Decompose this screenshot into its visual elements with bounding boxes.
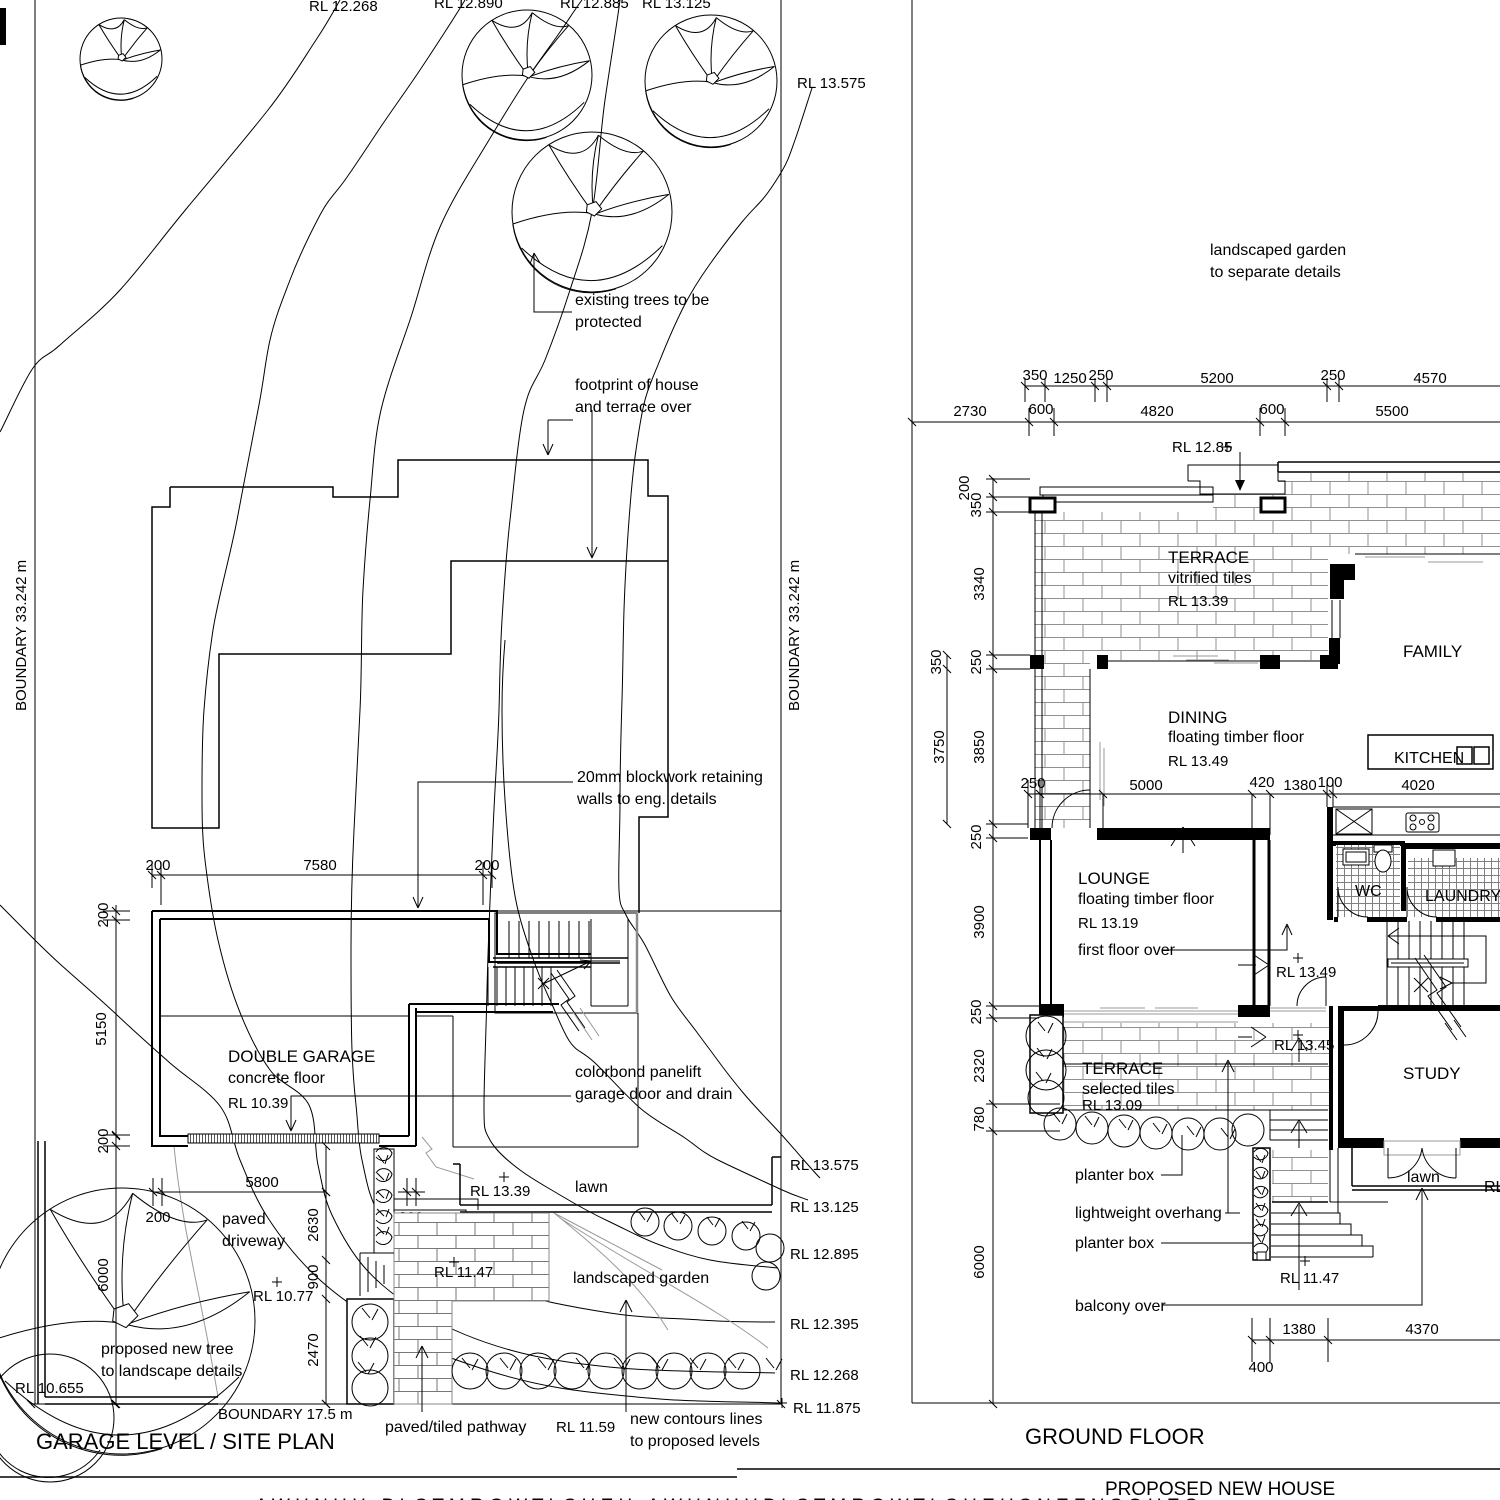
french door [1384, 1141, 1460, 1155]
gray garden fan lines [554, 1213, 768, 1348]
retaining wall bottom-left [38, 1141, 218, 1404]
lounge south window gray [1064, 1008, 1238, 1014]
svg-text:FAMILY: FAMILY [1403, 642, 1462, 661]
svg-text:RL 11.59: RL 11.59 [556, 1419, 615, 1436]
lot boundary vertical [911, 0, 913, 1403]
corner mark top-left [0, 8, 6, 45]
svg-text:proposed new tree: proposed new tree [101, 1341, 234, 1358]
svg-text:RL 12.268: RL 12.268 [790, 1367, 859, 1384]
svg-text:landscaped garden: landscaped garden [1210, 242, 1346, 259]
terrace2 shrub row [1044, 1108, 1264, 1150]
svg-text:GARAGE LEVEL / SITE PLAN: GARAGE LEVEL / SITE PLAN [36, 1429, 335, 1454]
svg-text:A W H N H H , B L S T M: A W H N H H , B L S T M R G W T L S H E … [255, 1496, 1197, 1500]
dim row2 [908, 401, 1500, 436]
svg-text:RL 11.875: RL 11.875 [793, 1400, 861, 1417]
tree T4 [512, 132, 672, 293]
svg-text:RL 13.49: RL 13.49 [1168, 753, 1228, 770]
brick pathway [394, 1213, 549, 1404]
svg-text:250: 250 [1020, 775, 1045, 792]
stair X start [1414, 978, 1428, 992]
svg-text:RL 12.395: RL 12.395 [790, 1316, 859, 1333]
WC room tiles [1336, 845, 1400, 917]
svg-text:250: 250 [968, 649, 985, 674]
svg-text:DOUBLE GARAGE: DOUBLE GARAGE [228, 1047, 375, 1066]
svg-text:200: 200 [95, 1128, 112, 1153]
svg-text:350: 350 [968, 492, 985, 517]
svg-text:350: 350 [1022, 367, 1047, 384]
pathway arrow [416, 1346, 428, 1412]
svg-text:1250: 1250 [1053, 370, 1086, 387]
garage interior split line [160, 1015, 409, 1017]
svg-text:6000: 6000 [95, 1258, 112, 1291]
contour C1 re-entry lower [0, 905, 779, 1403]
svg-text:6000: 6000 [971, 1245, 988, 1278]
stair lower flight treads [488, 967, 551, 1006]
svg-text:780: 780 [971, 1106, 988, 1131]
svg-text:planter box: planter box [1075, 1167, 1154, 1184]
planter strip right [1253, 1148, 1270, 1260]
steps S0 arrow [398, 1214, 424, 1240]
kitchen island [1368, 735, 1493, 769]
svg-text:200: 200 [95, 902, 112, 927]
stair up arrow left [1388, 928, 1399, 944]
svg-text:balcony over: balcony over [1075, 1298, 1166, 1315]
laundry door arc [1407, 887, 1437, 917]
terrace parapet top [1040, 487, 1213, 502]
driveway 6000 dim [95, 1132, 120, 1408]
svg-text:RL 10.77: RL 10.77 [253, 1288, 313, 1305]
threshold gray [1270, 1008, 1326, 1011]
boundary right (33.242 m) [780, 0, 782, 1404]
svg-text:400: 400 [1248, 1359, 1273, 1376]
terrace brick entry strip [1213, 494, 1278, 512]
lawn pocket edges [453, 1157, 781, 1212]
svg-text:STUDY: STUDY [1403, 1064, 1461, 1083]
left dim column main [956, 475, 1060, 1408]
svg-text:RL 11.47: RL 11.47 [434, 1264, 493, 1281]
svg-text:to separate details: to separate details [1210, 264, 1341, 281]
svg-text:BOUNDARY 17.5 m: BOUNDARY 17.5 m [218, 1406, 353, 1423]
svg-text:RL 13.39: RL 13.39 [1168, 593, 1228, 610]
svg-text:5200: 5200 [1200, 370, 1233, 387]
steps to lawn [1271, 1148, 1388, 1257]
contour C2 [202, 0, 775, 1373]
svg-text:7580: 7580 [303, 857, 336, 874]
svg-text:DINING: DINING [1168, 708, 1228, 727]
svg-text:and terrace over: and terrace over [575, 399, 692, 416]
svg-text:landscaped garden: landscaped garden [573, 1270, 709, 1287]
svg-text:walls to eng. details: walls to eng. details [576, 791, 717, 808]
garage walls thick double [152, 911, 591, 1146]
lawn top line to boundary [497, 910, 781, 912]
svg-text:RL 10.39: RL 10.39 [228, 1095, 288, 1112]
svg-text:to proposed levels: to proposed levels [630, 1433, 760, 1450]
family west window [1332, 600, 1340, 638]
svg-text:LOUNGE: LOUNGE [1078, 869, 1150, 888]
svg-text:900: 900 [305, 1264, 322, 1289]
terrace west wall lines [1035, 512, 1042, 828]
svg-text:vitrified tiles: vitrified tiles [1168, 570, 1252, 587]
boundary bottom (17.5 m) [27, 1400, 785, 1408]
svg-text:RL 13.39: RL 13.39 [470, 1183, 530, 1200]
svg-text:KITCHEN: KITCHEN [1394, 750, 1464, 767]
planter box leader2 [1161, 1242, 1253, 1244]
path up arrow [1291, 1203, 1307, 1290]
study west walls [1329, 1006, 1344, 1150]
shrub row bottom [452, 1353, 782, 1389]
svg-text:TERRACE: TERRACE [1082, 1059, 1163, 1078]
svg-text:BOUNDARY 33.242 m: BOUNDARY 33.242 m [786, 560, 803, 711]
svg-text:existing trees to be: existing trees to be [575, 292, 709, 309]
svg-text:250: 250 [968, 824, 985, 849]
svg-text:RL 10.655: RL 10.655 [15, 1380, 84, 1397]
svg-text:planter box: planter box [1075, 1235, 1154, 1252]
svg-text:600: 600 [1028, 401, 1053, 418]
svg-text:RL 12.268: RL 12.268 [309, 0, 378, 15]
dim column 2630/900/2470 [305, 1142, 330, 1408]
hall wall double vertical [1254, 840, 1269, 1006]
family west pier L [1330, 564, 1355, 599]
stair treads upper [1387, 921, 1464, 959]
dim bottom 400/1380/4370 [1248, 1318, 1500, 1376]
lawn up arrow [1416, 1188, 1428, 1210]
svg-text:new contours lines: new contours lines [630, 1411, 763, 1428]
terrace piers top [1030, 498, 1285, 512]
svg-text:RL: RL [1484, 1179, 1500, 1196]
svg-text:concrete floor: concrete floor [228, 1070, 326, 1087]
terrace2 east steps [1270, 1110, 1328, 1140]
first floor over leader [1163, 924, 1292, 950]
leader existing trees [530, 253, 572, 312]
kitchen bench [1333, 807, 1500, 835]
dim column 200/5150/200 left [93, 902, 130, 1153]
study door arc [1344, 1011, 1378, 1045]
stair walk line with X and arrow [538, 960, 620, 989]
svg-text:first floor over: first floor over [1078, 942, 1176, 959]
terrace south piers [1030, 655, 1338, 669]
RL 12.85 [1172, 439, 1232, 456]
svg-text:RL 13.49: RL 13.49 [1276, 964, 1336, 981]
terrace brick main [1035, 512, 1328, 660]
terrace west column brick [1035, 660, 1090, 828]
svg-text:250: 250 [1320, 367, 1345, 384]
cooktop [1406, 813, 1439, 832]
entry canopy [1188, 465, 1285, 494]
svg-text:lawn: lawn [1407, 1169, 1440, 1186]
NE wall double [1278, 462, 1500, 472]
svg-text:200: 200 [474, 857, 499, 874]
wc/laundry south wall [1334, 917, 1500, 922]
contour C4 [484, 0, 778, 1268]
svg-text:RL 13.45: RL 13.45 [1274, 1037, 1334, 1054]
svg-text:5150: 5150 [93, 1012, 110, 1045]
svg-text:5000: 5000 [1129, 777, 1162, 794]
svg-text:GROUND FLOOR: GROUND FLOOR [1025, 1424, 1205, 1449]
terrace2 inner line [1063, 1063, 1328, 1065]
svg-text:lawn: lawn [575, 1179, 608, 1196]
dim row1 [1021, 367, 1500, 402]
under-stair room [416, 1013, 638, 1147]
svg-text:garage door and drain: garage door and drain [575, 1086, 732, 1103]
stair landing square [591, 919, 628, 1006]
entry arrow [1235, 452, 1245, 491]
tree T3 [645, 15, 777, 148]
svg-text:200: 200 [145, 857, 170, 874]
terrace2 bottom line [1063, 1109, 1270, 1111]
svg-text:paved/tiled pathway: paved/tiled pathway [385, 1419, 526, 1436]
svg-text:1380: 1380 [1283, 777, 1316, 794]
svg-text:RL 12.885: RL 12.885 [560, 0, 629, 12]
lounge door arc [1052, 790, 1090, 828]
terrace2 step arrows [1291, 1038, 1307, 1148]
svg-text:420: 420 [1249, 774, 1274, 791]
svg-text:2730: 2730 [953, 403, 986, 420]
dining west window gray [1100, 742, 1104, 806]
tree T5 proposed big [0, 1188, 255, 1455]
svg-text:3850: 3850 [971, 730, 988, 763]
svg-text:20mm blockwork retaining: 20mm blockwork retaining [577, 769, 763, 786]
kitchen west wall [1327, 807, 1333, 920]
left dim secondary [928, 649, 951, 828]
WC-laundry wall [1401, 843, 1406, 911]
terrace2 planter left [1026, 1015, 1066, 1116]
svg-text:selected tiles: selected tiles [1082, 1081, 1175, 1098]
stair right thick gray edge [636, 913, 639, 1013]
lounge south wall piers [1039, 1004, 1270, 1017]
lounge west wall [1040, 840, 1051, 1004]
svg-text:600: 600 [1259, 401, 1284, 418]
planter strip P1 [374, 1148, 394, 1253]
svg-text:RL 11.47: RL 11.47 [1280, 1270, 1339, 1287]
svg-text:4370: 4370 [1405, 1321, 1438, 1338]
steps S1 [360, 1253, 394, 1296]
svg-text:protected: protected [575, 314, 642, 331]
right plan texts [1025, 242, 1500, 1449]
planter box leader1 [1161, 1135, 1182, 1175]
svg-text:RL 12.895: RL 12.895 [790, 1246, 859, 1263]
svg-text:WC: WC [1355, 883, 1382, 900]
svg-text:4820: 4820 [1140, 403, 1173, 420]
svg-text:LAUNDRY: LAUNDRY [1425, 888, 1500, 905]
svg-text:2470: 2470 [305, 1333, 322, 1366]
svg-text:2320: 2320 [971, 1049, 988, 1082]
stair break zigzag [551, 970, 585, 1031]
stair mid landing band [493, 958, 628, 967]
hall door arc RL13.49 [1297, 977, 1326, 1006]
svg-text:350: 350 [928, 649, 945, 674]
hall opening arrows [1238, 955, 1269, 1047]
lounge north wall [1097, 828, 1270, 840]
contour C1 RL 12.268 [0, 0, 340, 432]
stair block outline [495, 913, 637, 1013]
svg-text:paved: paved [222, 1211, 266, 1228]
new contours arrow [620, 1300, 632, 1412]
study bottom wall [1338, 1138, 1500, 1148]
dim 5800 + 200 [145, 1174, 330, 1226]
lightweight overhang arrow [1222, 1060, 1234, 1213]
stair left edge [1386, 921, 1388, 1005]
svg-text:5500: 5500 [1375, 403, 1408, 420]
gray break line near garage corner [422, 1137, 474, 1179]
stair walk rect [1398, 936, 1486, 983]
svg-text:driveway: driveway [222, 1233, 285, 1250]
svg-text:4020: 4020 [1401, 777, 1434, 794]
stair bottom wall [1378, 1005, 1500, 1011]
balcony over leader [1163, 1192, 1422, 1305]
svg-text:floating timber floor: floating timber floor [1168, 729, 1305, 746]
laundry room [1406, 843, 1500, 917]
lounge NW corner block [1030, 828, 1051, 840]
svg-text:3900: 3900 [971, 905, 988, 938]
svg-text:250: 250 [1088, 367, 1113, 384]
svg-text:TERRACE: TERRACE [1168, 548, 1249, 567]
svg-text:3340: 3340 [971, 567, 988, 600]
boundary left (33.242 m) [34, 0, 36, 1404]
stair treads lower [1387, 967, 1464, 1005]
dining-lounge opening arrow [1171, 827, 1195, 853]
svg-text:5800: 5800 [245, 1174, 278, 1191]
svg-text:lightweight overhang: lightweight overhang [1075, 1205, 1222, 1222]
house footprint outline [152, 460, 668, 913]
family north wall [1355, 554, 1500, 562]
ground floor separator [912, 1402, 1500, 1404]
shrub row upper right [631, 1208, 784, 1290]
dim 200 at path [398, 1178, 425, 1226]
study top wall [1344, 1006, 1378, 1011]
garage door hatch strip [188, 1134, 379, 1143]
svg-text:RL 13.125: RL 13.125 [642, 0, 711, 12]
terrace2 brick [1063, 1023, 1329, 1110]
terrace brick NE band [1278, 473, 1500, 554]
stair landing band [1388, 959, 1468, 967]
planter box P2 [347, 1299, 394, 1406]
svg-text:4570: 4570 [1413, 370, 1446, 387]
terrace2 top edge gray [1064, 1021, 1238, 1023]
leader footprint arrows [543, 410, 597, 558]
dim row3 kitchen [1020, 774, 1500, 835]
leader blockwork [413, 782, 573, 908]
svg-text:250: 250 [968, 999, 985, 1024]
family west pier lower [1329, 638, 1340, 664]
svg-text:RL 13.125: RL 13.125 [790, 1199, 859, 1216]
gray driveway curve [174, 1146, 218, 1397]
svg-text:2630: 2630 [305, 1208, 322, 1241]
svg-text:3750: 3750 [931, 730, 948, 763]
tree T1 [80, 18, 162, 100]
dining north line + sliders [1108, 656, 1320, 663]
texts left plan [13, 0, 866, 1454]
svg-text:RL 13.19: RL 13.19 [1078, 915, 1138, 932]
overhang leader [1225, 1212, 1240, 1214]
separator lines [0, 1469, 1500, 1477]
svg-text:to landscape details: to landscape details [101, 1363, 242, 1380]
balcony path bottom edge [1272, 1201, 1328, 1203]
svg-text:RL 13.575: RL 13.575 [797, 75, 866, 92]
leader colorbond [286, 1096, 571, 1131]
terrace east edge line [1089, 669, 1091, 828]
tree T2 [462, 10, 592, 141]
svg-text:1380: 1380 [1282, 1321, 1315, 1338]
contour C6 RL 13.575 [619, 88, 820, 1178]
svg-text:100: 100 [1317, 774, 1342, 791]
stair break zigzag [1415, 955, 1466, 1040]
contour C5 [502, 640, 808, 1200]
tree T6 partial bottom-left [0, 1354, 114, 1482]
stair break gray tail [573, 1008, 599, 1040]
dim 200/7580/200 above garage [145, 857, 499, 905]
stair upper flight treads [509, 921, 589, 958]
svg-text:RL 13.09: RL 13.09 [1082, 1097, 1142, 1114]
svg-text:footprint of house: footprint of house [575, 377, 699, 394]
svg-text:RL 13.575: RL 13.575 [790, 1157, 859, 1174]
lawn edges right plan [1352, 1148, 1500, 1190]
WC door arc [1338, 887, 1368, 917]
svg-text:floating timber floor: floating timber floor [1078, 891, 1215, 908]
wall under bench [1333, 841, 1405, 846]
stair walk arrow [1440, 977, 1452, 989]
svg-text:BOUNDARY 33.242 m: BOUNDARY 33.242 m [13, 560, 30, 711]
svg-text:RL 12.890: RL 12.890 [434, 0, 503, 12]
steps S0 driveway [394, 1199, 478, 1243]
svg-text:200: 200 [145, 1209, 170, 1226]
contour C3 [351, 0, 775, 1322]
balcony path brick [1272, 1150, 1328, 1202]
svg-text:colorbond panelift: colorbond panelift [575, 1064, 702, 1081]
